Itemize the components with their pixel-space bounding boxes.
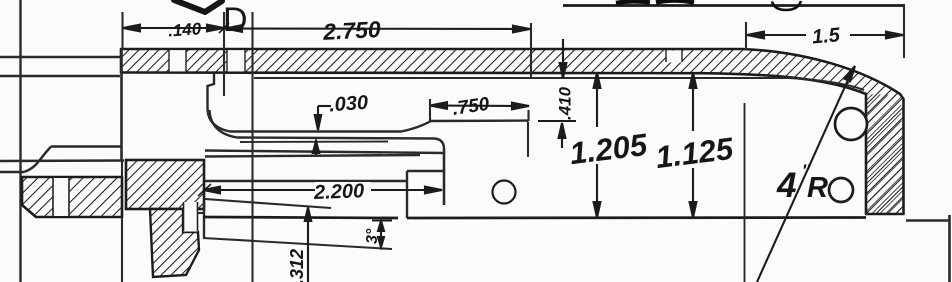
svg-text:2.750: 2.750	[321, 16, 381, 45]
extension line x122 top	[121, 12, 123, 49]
stock outline bottom stub	[0, 171, 24, 173]
barrel line upper left	[0, 56, 120, 58]
ejection port right wall	[527, 122, 529, 158]
border grid vertical line left	[19, 0, 21, 282]
extension .750 left	[429, 99, 431, 121]
right end block dense hatch overlay	[866, 94, 904, 214]
dimension 2.750	[225, 25, 530, 32]
stock outline lower line	[0, 159, 124, 162]
stock outline upper line	[51, 145, 122, 147]
step box left	[406, 171, 408, 218]
extension line x252	[251, 12, 253, 282]
handwriting remnant scribble top	[616, 1, 694, 4]
svg-text:1.5: 1.5	[811, 24, 841, 48]
dimension 1.205 vertical	[594, 73, 601, 218]
step box top	[407, 170, 444, 172]
svg-text:4: 4	[776, 166, 796, 205]
extension line x224	[223, 12, 225, 96]
rail top line	[205, 151, 444, 154]
extension line x746 upper	[745, 22, 747, 49]
rail inner line	[205, 180, 407, 182]
cavity lip line	[210, 110, 445, 148]
taper line upper	[205, 199, 331, 208]
label 1.205	[572, 127, 640, 164]
step outline right of leg	[203, 202, 205, 238]
top wall notch 3	[666, 50, 682, 63]
hole top right	[835, 108, 867, 140]
barrel line lower left	[0, 75, 120, 77]
leg notch white	[184, 202, 198, 232]
dimension .750	[430, 102, 529, 109]
extension line x745 lower	[744, 103, 746, 282]
svg-text:R: R	[807, 172, 828, 204]
bottom rail line	[203, 217, 866, 218]
hole center	[493, 181, 516, 204]
label 1.5	[806, 22, 850, 44]
label 2.200	[315, 182, 371, 199]
bottom right corner lines	[906, 219, 950, 221]
top border line	[563, 4, 905, 7]
svg-text:.140: .140	[167, 19, 202, 40]
cavity left wall with fillet	[208, 73, 231, 132]
hatched top wall with right end block	[121, 49, 904, 214]
dimension .030 opposing arrow	[313, 141, 319, 155]
left hatched lug block	[22, 177, 122, 217]
svg-text:.312: .312	[287, 249, 307, 282]
rail right edge	[443, 148, 446, 205]
dimension .410 tick	[538, 120, 576, 122]
dimension .410 down arrow	[560, 39, 567, 78]
top wall notch 1	[169, 50, 186, 72]
dimension 3 degrees	[372, 221, 392, 248]
svg-text:2.200: 2.200	[313, 180, 365, 204]
label 4R with leader	[757, 66, 855, 282]
label 1.125	[658, 131, 724, 168]
top wall notch 2	[227, 50, 245, 72]
step tick	[197, 212, 204, 214]
inner ceiling line	[254, 78, 864, 90]
hatched leg below	[150, 209, 199, 277]
circled letter remnant top right	[772, 1, 801, 10]
extension line x531	[530, 23, 532, 79]
extension line below wall	[121, 160, 123, 282]
rail second line	[205, 155, 420, 157]
svg-text:.410: .410	[556, 86, 575, 120]
dimension .030 bracket and arrow	[315, 106, 331, 130]
lug slot white	[53, 177, 69, 217]
lip third line	[240, 141, 388, 144]
extension .750 right upper	[527, 110, 529, 121]
receiver left outer wall	[120, 49, 123, 160]
leader remnant above D	[174, 0, 222, 12]
svg-text:D: D	[223, 1, 248, 39]
dimension .312 vertical	[305, 208, 311, 282]
dimension 2.200	[198, 184, 442, 196]
dimension .410 up arrow	[559, 123, 566, 148]
center hatched block	[126, 160, 204, 209]
extension line x904	[903, 6, 905, 58]
taper line lower	[203, 238, 392, 249]
hole bottom right	[829, 178, 853, 202]
dimension 1.125 vertical	[690, 73, 697, 218]
svg-text:.750: .750	[451, 94, 491, 120]
cavity bottom line	[230, 121, 528, 132]
svg-text:.030: .030	[328, 92, 368, 117]
svg-text:3°: 3°	[364, 228, 381, 244]
dimension 1.5	[747, 32, 903, 39]
dimension .140	[123, 23, 229, 33]
stock front curve	[24, 147, 51, 173]
